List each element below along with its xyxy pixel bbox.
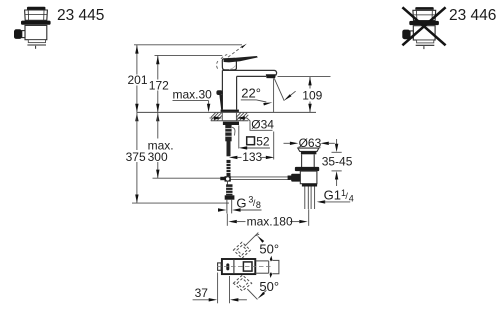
svg-text:Ø63: Ø63: [299, 136, 322, 150]
swing arc arrow down: [270, 272, 273, 278]
dimension max.30 arrow: [207, 104, 210, 112]
water stream 22 degree line: [274, 78, 284, 100]
handle swing diamond lower: [233, 275, 251, 291]
dimension 37 centerline extension: [229, 276, 231, 303]
dimension max300 arrow: [156, 170, 159, 178]
G 3/8 leader arrows: [218, 208, 262, 211]
drain rod port: [291, 174, 300, 182]
dimension 109 extension line: [278, 76, 331, 78]
dimension max300 line: [157, 112, 159, 178]
dimension Ø63 arrows: [284, 142, 335, 145]
svg-text:201: 201: [128, 73, 148, 87]
threaded shank and hose: [225, 125, 235, 176]
faucet base plate: [221, 110, 239, 112]
top view centerline: [217, 266, 273, 268]
top view end bracket: [272, 260, 279, 273]
dimension 375 line: [136, 112, 138, 202]
svg-text:300: 300: [148, 150, 168, 164]
label G1 1/4 text: [324, 188, 354, 204]
extension line top (raised lever level): [134, 44, 242, 46]
dimension 201 line: [136, 45, 138, 112]
svg-text:50°: 50°: [259, 279, 279, 294]
dimension Ø63 extension ticks: [299, 147, 320, 149]
countertop deck bottom line: [211, 120, 249, 122]
label Ø34 arrows: [210, 116, 247, 119]
svg-text:Ø34: Ø34: [251, 118, 274, 132]
angle 22 leader: [241, 100, 273, 106]
drain rod shaft nub: [288, 176, 292, 180]
svg-text:133: 133: [242, 150, 262, 164]
hose lower section: [226, 182, 232, 196]
top view spout lines: [255, 261, 268, 273]
svg-text:23 446: 23 446: [449, 7, 496, 24]
hose end tube: [227, 200, 232, 214]
top view square detail: [243, 262, 252, 271]
mounting nut: [223, 122, 239, 125]
label G1 1/4 leader arrow: [317, 200, 350, 203]
top view lever pill: [226, 263, 229, 270]
faucet spout: [222, 70, 276, 76]
svg-text:22°: 22°: [241, 86, 261, 101]
drain body bottom: [302, 184, 317, 187]
faucet hole edges: [222, 112, 236, 120]
drain neck: [302, 154, 315, 167]
svg-text:50°: 50°: [259, 242, 279, 257]
faucet body column: [222, 70, 236, 109]
drain flange: [298, 148, 319, 154]
svg-text:max.30: max.30: [173, 88, 213, 102]
rod junction: [220, 176, 231, 181]
dimension 109 line: [309, 77, 311, 112]
pop-up rod horizontal: [231, 177, 290, 180]
water stream vertical line: [273, 78, 275, 112]
dims 375 and max300 top arrows at deck: [135, 113, 159, 121]
label Ø34 frame: [247, 118, 273, 130]
dimension max.180 extension lines: [227, 209, 308, 226]
raised handle dashed ghost: [217, 45, 245, 69]
svg-text:8: 8: [256, 200, 261, 210]
pop-up waste icon 23 445: [14, 7, 51, 49]
drain body: [300, 171, 317, 184]
dimension 133 arrows: [229, 156, 274, 159]
top view pull rod knob: [218, 263, 222, 270]
drain collar: [295, 167, 319, 171]
pop-up waste icon 23 446 (crossed out): [402, 7, 439, 49]
raised handle arrow: [241, 43, 247, 48]
deck hatching left: [211, 113, 223, 121]
dimension 35-45: [332, 139, 342, 186]
svg-text:G1: G1: [324, 188, 341, 203]
dimension 37 leader arrows: [193, 298, 247, 301]
svg-text:375: 375: [126, 150, 146, 164]
rod level extension line: [153, 177, 221, 179]
svg-text:35-45: 35-45: [322, 155, 353, 169]
dimension max.30 leader: [173, 101, 209, 106]
dimension 375 arrow: [135, 195, 138, 203]
svg-text:109: 109: [302, 89, 322, 103]
swing arc arrow up: [270, 256, 273, 262]
stream pointer arrow: [283, 91, 296, 102]
extension line handle rest level: [155, 54, 223, 56]
svg-text:G: G: [236, 196, 246, 211]
G 3/8 text: [236, 195, 261, 211]
spout aerator: [266, 74, 276, 78]
svg-text:37: 37: [195, 286, 209, 300]
dimension 35-45 arrows: [335, 144, 338, 180]
upper 50 leader: [245, 233, 264, 247]
svg-text:23 445: 23 445: [57, 7, 104, 24]
handle knob: [222, 58, 236, 70]
stream reference extension line: [273, 132, 275, 160]
svg-text:max.180: max.180: [247, 214, 293, 228]
G 3/8 connector: [225, 195, 235, 199]
svg-text:172: 172: [149, 79, 169, 93]
countertop deck top line: [137, 111, 317, 113]
svg-text:52: 52: [256, 134, 270, 148]
dimension 37 extension line: [217, 273, 219, 304]
handle knob shading: [229, 66, 235, 70]
pull rod: [219, 95, 222, 110]
dimension 201 arrows: [135, 45, 138, 112]
dimension 172 line: [157, 56, 159, 112]
dimension 109 arrows: [308, 77, 311, 112]
deck hatching right: [236, 113, 248, 121]
hose end extension line: [132, 202, 229, 204]
label square 52 symbol: [247, 137, 255, 145]
pull rod knob: [216, 90, 222, 95]
label square 52 leader arrow: [239, 146, 270, 149]
drain tailpiece: [305, 187, 315, 210]
dimension 172 arrows: [156, 56, 159, 112]
cross-out X: [402, 7, 445, 45]
handle lever: [224, 56, 258, 62]
dimension max.180 arrows: [228, 220, 307, 223]
handle swing diamond upper: [233, 242, 250, 258]
top view body: [222, 259, 255, 274]
square 52 extension line: [238, 125, 240, 148]
lower 50 leader: [247, 289, 266, 300]
top view divider: [233, 259, 235, 274]
